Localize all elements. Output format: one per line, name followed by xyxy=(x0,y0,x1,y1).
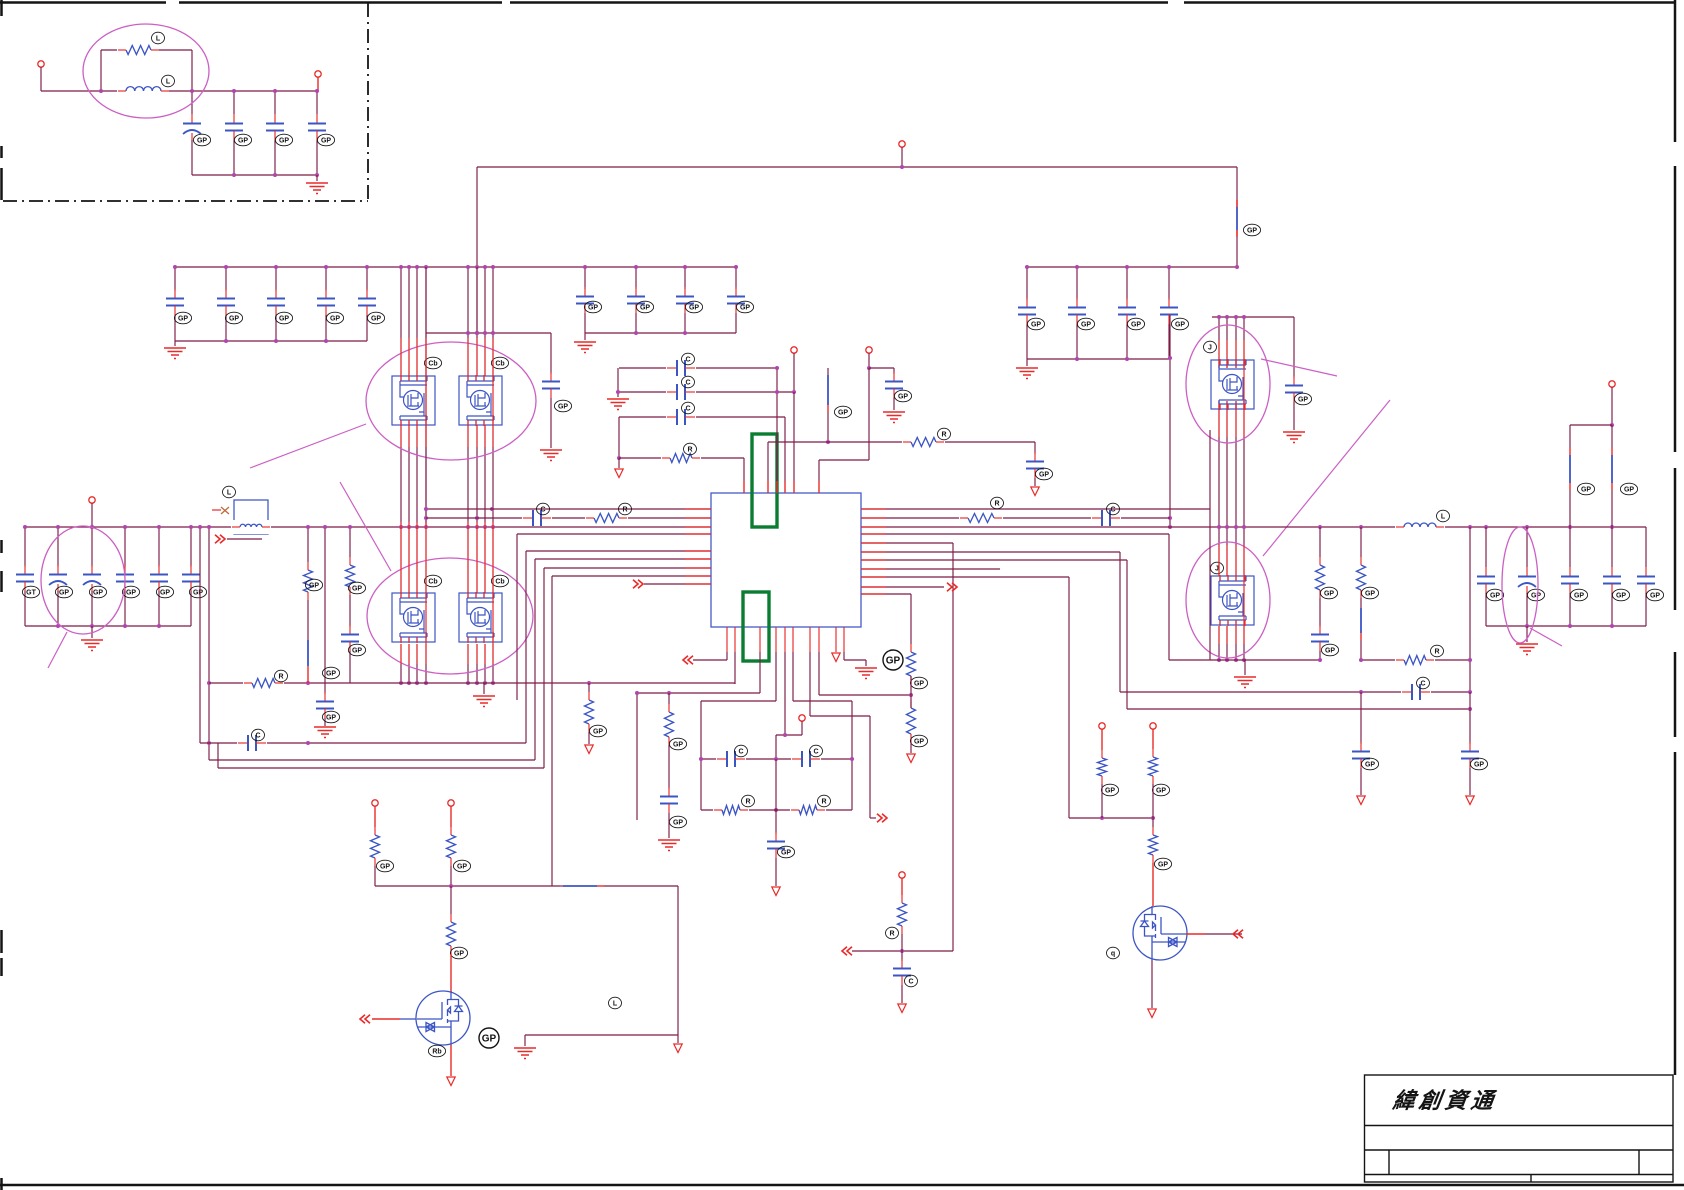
svg-text:GP: GP xyxy=(1325,647,1335,654)
svg-text:GP: GP xyxy=(454,950,464,957)
svg-text:C: C xyxy=(255,732,260,739)
svg-text:GP: GP xyxy=(838,409,848,416)
svg-text:R: R xyxy=(622,506,627,513)
svg-text:GT: GT xyxy=(26,589,36,596)
svg-text:GP: GP xyxy=(1105,787,1115,794)
svg-text:GP: GP xyxy=(482,1034,497,1045)
svg-text:GP: GP xyxy=(1581,486,1591,493)
svg-text:GP: GP xyxy=(238,137,248,144)
svg-text:C: C xyxy=(908,978,913,985)
svg-text:GP: GP xyxy=(640,304,650,311)
svg-text:L: L xyxy=(156,35,161,42)
svg-text:R: R xyxy=(821,798,826,805)
svg-text:Cb: Cb xyxy=(428,578,437,585)
svg-text:R: R xyxy=(889,930,894,937)
svg-text:GP: GP xyxy=(59,589,69,596)
svg-text:GP: GP xyxy=(886,656,901,667)
svg-text:Cb: Cb xyxy=(495,360,504,367)
svg-text:R: R xyxy=(745,798,750,805)
svg-text:GP: GP xyxy=(326,670,336,677)
svg-text:Cb: Cb xyxy=(495,578,504,585)
svg-text:緯創資通: 緯創資通 xyxy=(1390,1088,1498,1113)
svg-text:GP: GP xyxy=(279,137,289,144)
svg-text:GP: GP xyxy=(898,393,908,400)
svg-text:GP: GP xyxy=(1131,321,1141,328)
svg-text:L: L xyxy=(227,489,232,496)
svg-text:C: C xyxy=(1420,680,1425,687)
svg-text:L: L xyxy=(613,1000,618,1007)
svg-text:GP: GP xyxy=(93,589,103,596)
svg-text:GP: GP xyxy=(126,589,136,596)
svg-text:GP: GP xyxy=(689,304,699,311)
svg-text:GP: GP xyxy=(352,647,362,654)
svg-text:R: R xyxy=(278,673,283,680)
svg-text:GP: GP xyxy=(352,585,362,592)
svg-text:C: C xyxy=(685,379,690,386)
svg-text:GP: GP xyxy=(1490,592,1500,599)
svg-text:GP: GP xyxy=(1247,227,1257,234)
svg-text:GP: GP xyxy=(178,315,188,322)
svg-text:GP: GP xyxy=(740,304,750,311)
svg-text:R: R xyxy=(994,500,999,507)
svg-text:GP: GP xyxy=(380,863,390,870)
svg-text:GP: GP xyxy=(309,582,319,589)
svg-text:GP: GP xyxy=(1081,321,1091,328)
svg-text:GP: GP xyxy=(1039,471,1049,478)
svg-text:C: C xyxy=(813,748,818,755)
svg-text:GP: GP xyxy=(279,315,289,322)
svg-text:C: C xyxy=(685,405,690,412)
svg-text:GP: GP xyxy=(371,315,381,322)
svg-text:GP: GP xyxy=(914,738,924,745)
svg-text:C: C xyxy=(1110,506,1115,513)
svg-text:GP: GP xyxy=(229,315,239,322)
svg-text:GP: GP xyxy=(1474,761,1484,768)
svg-text:GP: GP xyxy=(593,728,603,735)
svg-text:GP: GP xyxy=(326,714,336,721)
svg-text:L: L xyxy=(1441,513,1446,520)
svg-text:GP: GP xyxy=(588,304,598,311)
svg-text:GP: GP xyxy=(1175,321,1185,328)
svg-text:R: R xyxy=(1434,648,1439,655)
svg-text:GP: GP xyxy=(330,315,340,322)
svg-text:J: J xyxy=(1208,344,1212,351)
svg-text:GP: GP xyxy=(673,819,683,826)
svg-text:GP: GP xyxy=(914,680,924,687)
svg-text:R: R xyxy=(687,446,692,453)
svg-text:Rb: Rb xyxy=(432,1048,441,1055)
svg-text:GP: GP xyxy=(1156,787,1166,794)
svg-text:C: C xyxy=(540,506,545,513)
svg-text:GP: GP xyxy=(193,589,203,596)
svg-text:Cb: Cb xyxy=(428,360,437,367)
svg-text:GP: GP xyxy=(1616,592,1626,599)
svg-text:GP: GP xyxy=(1324,590,1334,597)
svg-text:GP: GP xyxy=(673,741,683,748)
svg-text:GP: GP xyxy=(558,403,568,410)
svg-text:GP: GP xyxy=(321,137,331,144)
svg-text:R: R xyxy=(941,431,946,438)
svg-text:GP: GP xyxy=(1298,396,1308,403)
svg-text:GP: GP xyxy=(1531,592,1541,599)
svg-text:GP: GP xyxy=(1158,861,1168,868)
svg-text:GP: GP xyxy=(1574,592,1584,599)
svg-text:GP: GP xyxy=(457,863,467,870)
svg-text:GP: GP xyxy=(1031,321,1041,328)
svg-text:GP: GP xyxy=(781,849,791,856)
svg-text:q: q xyxy=(1111,950,1115,957)
svg-text:C: C xyxy=(685,356,690,363)
svg-text:GP: GP xyxy=(197,137,207,144)
svg-text:GP: GP xyxy=(1624,486,1634,493)
svg-text:GP: GP xyxy=(1650,592,1660,599)
svg-text:GP: GP xyxy=(1365,590,1375,597)
svg-text:C: C xyxy=(738,748,743,755)
svg-text:L: L xyxy=(166,78,171,85)
svg-text:GP: GP xyxy=(160,589,170,596)
svg-text:GP: GP xyxy=(1365,761,1375,768)
